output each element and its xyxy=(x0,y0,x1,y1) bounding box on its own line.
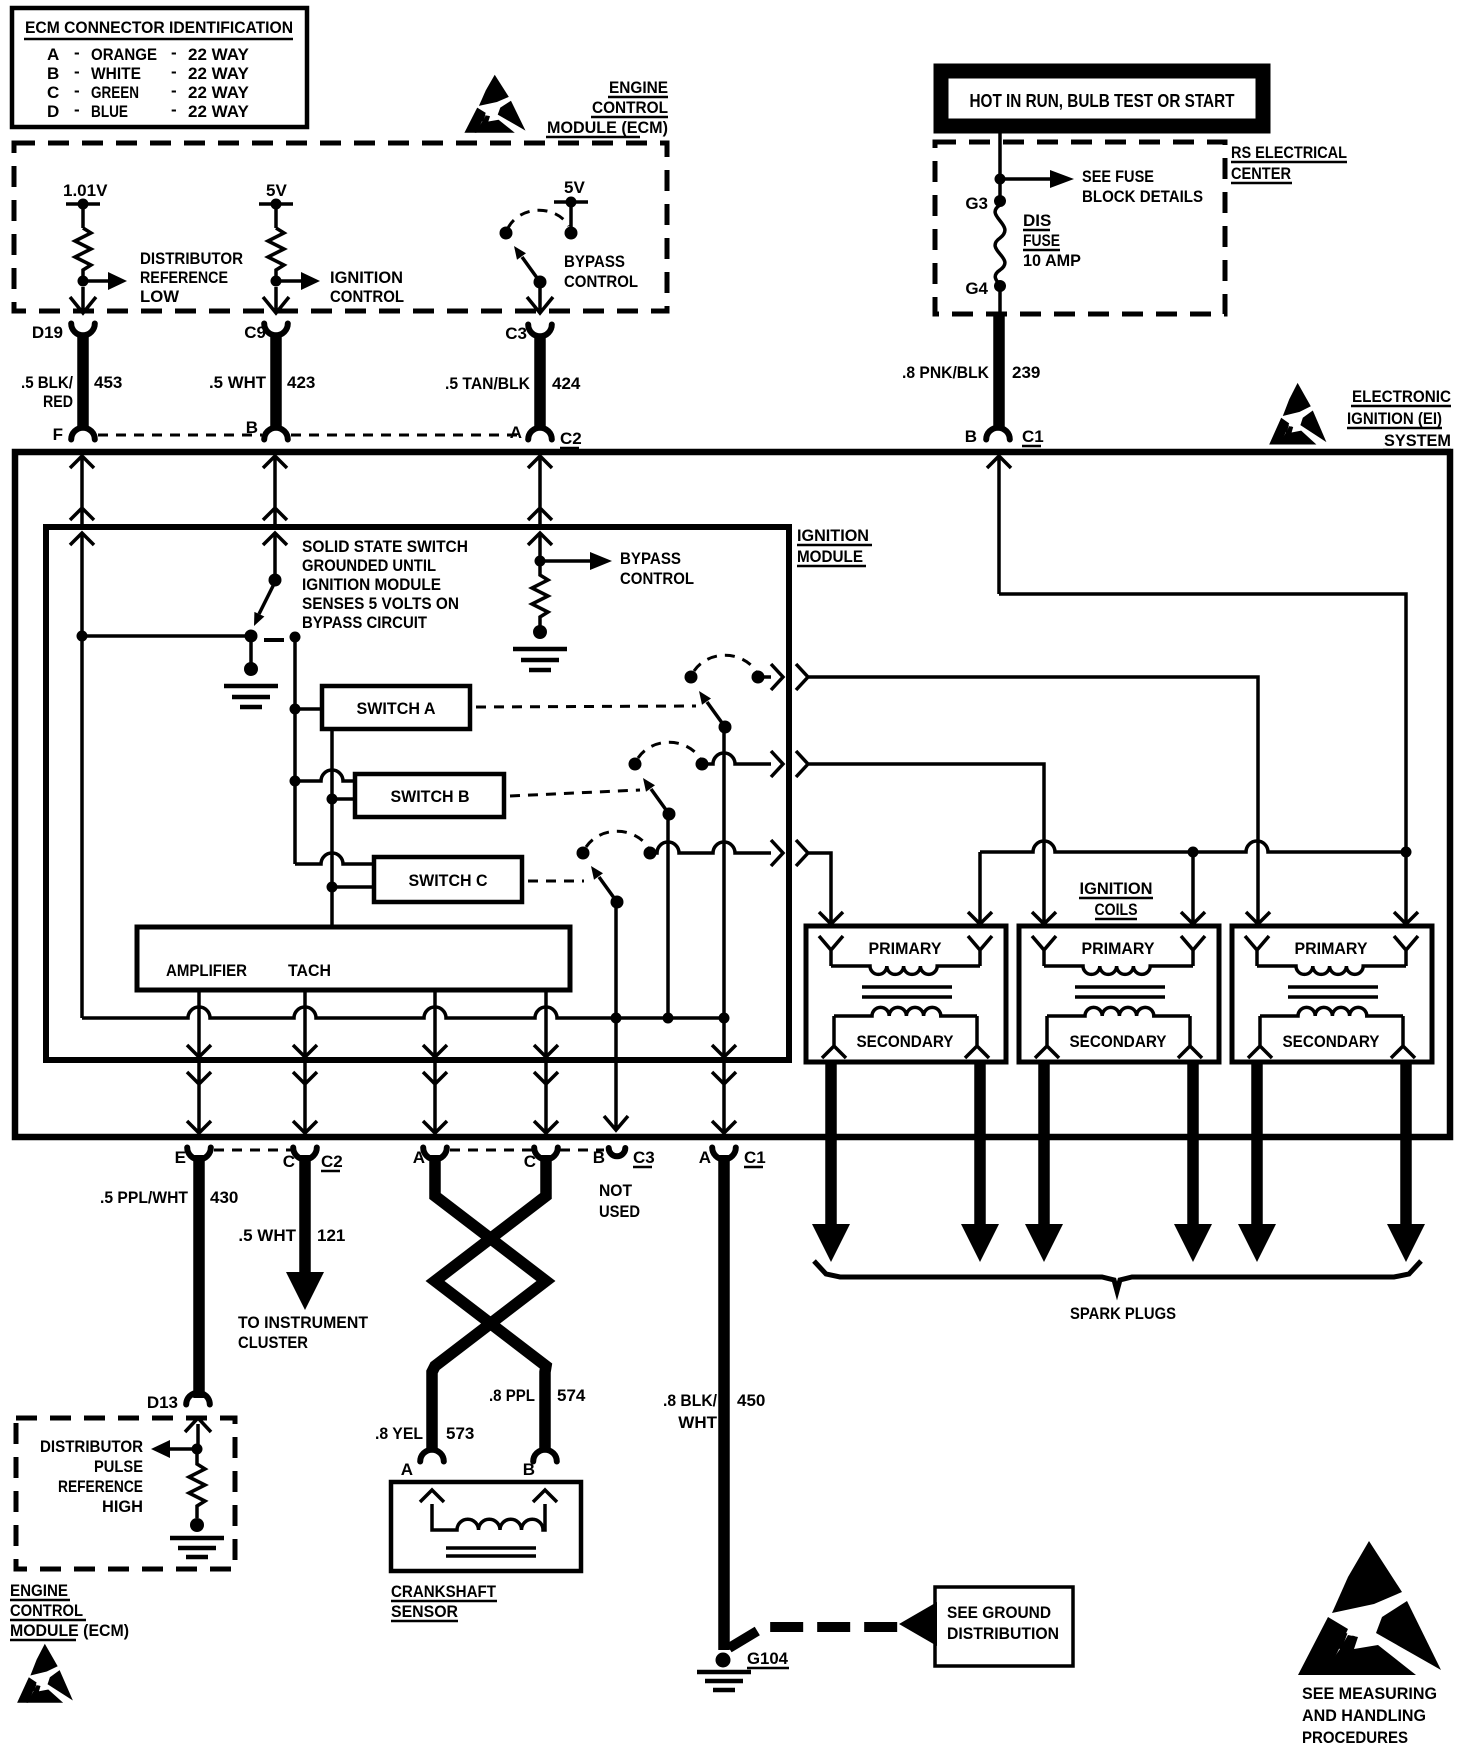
svg-text:A: A xyxy=(47,45,59,64)
spark plug wire 2 xyxy=(974,1062,986,1226)
svg-text:CRANKSHAFT: CRANKSHAFT xyxy=(391,1582,497,1601)
svg-text:-: - xyxy=(74,100,80,119)
svg-text:ECM CONNECTOR IDENTIFICATION: ECM CONNECTOR IDENTIFICATION xyxy=(25,18,293,37)
svg-text:NOT: NOT xyxy=(599,1181,633,1200)
node distributor pulse junction xyxy=(192,1444,203,1455)
svg-text:SENSOR: SENSOR xyxy=(391,1602,458,1621)
svg-text:MODULE: MODULE xyxy=(797,547,863,566)
svg-text:CONTROL: CONTROL xyxy=(592,98,668,117)
svg-text:D19: D19 xyxy=(32,323,63,342)
see ground distribution box xyxy=(935,1587,1073,1666)
svg-text:ENGINE: ENGINE xyxy=(10,1581,68,1600)
wire switch bank bus xyxy=(293,637,297,864)
wire amplifier output E with chevrons xyxy=(187,990,211,1135)
svg-text:F: F xyxy=(53,425,63,444)
wire to C1 ground return with chevrons xyxy=(712,1018,736,1135)
svg-text:D: D xyxy=(47,102,59,121)
svg-text:574: 574 xyxy=(557,1386,586,1405)
svg-text:RS ELECTRICAL: RS ELECTRICAL xyxy=(1231,143,1347,162)
svg-text:SEE FUSE: SEE FUSE xyxy=(1082,167,1154,186)
svg-text:A: A xyxy=(510,423,522,442)
ECM connector identification legend box xyxy=(12,8,307,127)
svg-text:.5 WHT: .5 WHT xyxy=(238,1226,296,1245)
wire with pin arrow into connector D19 xyxy=(70,287,96,313)
svg-text:REFERENCE: REFERENCE xyxy=(140,268,228,287)
ESD symbol bottom right (large) xyxy=(1298,1541,1441,1675)
svg-text:10 AMP: 10 AMP xyxy=(1023,251,1081,270)
sensor winding xyxy=(420,1490,557,1530)
svg-text:WHT: WHT xyxy=(678,1413,717,1432)
wire amplifier output A with chevrons xyxy=(423,990,447,1135)
svg-text:CENTER: CENTER xyxy=(1231,164,1291,183)
svg-text:AND HANDLING: AND HANDLING xyxy=(1302,1706,1426,1725)
svg-text:22 WAY: 22 WAY xyxy=(188,102,249,121)
svg-text:-: - xyxy=(74,43,80,62)
resistor bypass (module) xyxy=(532,561,548,628)
svg-text:CLUSTER: CLUSTER xyxy=(238,1333,308,1352)
ground (solid state switch) xyxy=(249,636,253,666)
node bypass control junction xyxy=(535,556,546,567)
svg-text:IGNITION MODULE: IGNITION MODULE xyxy=(302,575,441,594)
wire column to switch B xyxy=(327,794,338,805)
amplifier / tach box xyxy=(137,927,570,990)
brace spark plugs xyxy=(814,1261,1421,1291)
wire dashed to ground distribution xyxy=(729,1627,898,1648)
svg-text:IGNITION (EI): IGNITION (EI) xyxy=(1347,409,1442,428)
svg-text:E: E xyxy=(175,1148,186,1167)
wire .8 PNK/BLK 239 xyxy=(993,314,1005,427)
svg-text:HOT IN RUN, BULB TEST OR START: HOT IN RUN, BULB TEST OR START xyxy=(970,91,1235,111)
svg-text:.8 PNK/BLK: .8 PNK/BLK xyxy=(902,363,990,382)
wire dashed pin line F-B xyxy=(98,434,262,437)
wire from hot feed xyxy=(998,133,1002,201)
ignition coil 1 xyxy=(806,926,1006,1062)
svg-text:22 WAY: 22 WAY xyxy=(188,45,249,64)
switch bypass control (in ECM) xyxy=(565,227,578,240)
svg-text:1.01V: 1.01V xyxy=(63,181,108,200)
resistor ignition control xyxy=(268,228,284,281)
svg-text:423: 423 xyxy=(287,373,315,392)
svg-text:SENSES 5 VOLTS ON: SENSES 5 VOLTS ON xyxy=(302,594,459,613)
svg-text:.5 WHT: .5 WHT xyxy=(209,373,267,392)
svg-text:DIS: DIS xyxy=(1023,211,1051,230)
svg-text:ELECTRONIC: ELECTRONIC xyxy=(1352,387,1451,406)
crankshaft sensor box xyxy=(391,1482,581,1571)
wire dashed link switch B to switch 2 xyxy=(510,790,640,796)
svg-text:.5 BLK/: .5 BLK/ xyxy=(21,373,73,392)
svg-text:SWITCH C: SWITCH C xyxy=(409,871,488,890)
wire .5 PPL/WHT 430 xyxy=(193,1155,205,1398)
wire feedback trunk (hops over amplifier outputs) xyxy=(82,636,724,1018)
wire xyxy=(81,204,85,228)
node fuse block tap xyxy=(995,174,1006,185)
svg-text:B: B xyxy=(593,1148,605,1167)
svg-text:DISTRIBUTOR: DISTRIBUTOR xyxy=(40,1437,143,1456)
wire power feed trace B/C1 with chevron xyxy=(987,456,1011,594)
svg-text:-: - xyxy=(171,62,177,81)
svg-text:ORANGE: ORANGE xyxy=(91,45,157,64)
ground (bypass resistor) xyxy=(533,625,547,639)
svg-text:ENGINE: ENGINE xyxy=(609,78,668,97)
svg-text:C1: C1 xyxy=(1022,427,1044,446)
wire xyxy=(569,202,573,233)
svg-text:-: - xyxy=(171,100,177,119)
wire .5 WHT 423 xyxy=(270,334,282,429)
wire dashed pin line B-A xyxy=(291,434,524,437)
svg-text:SOLID STATE SWITCH: SOLID STATE SWITCH xyxy=(302,537,468,556)
wire bus to switch B (hop over column) xyxy=(290,776,301,787)
svg-text:239: 239 xyxy=(1012,363,1040,382)
svg-text:-: - xyxy=(74,81,80,100)
svg-text:.5 TAN/BLK: .5 TAN/BLK xyxy=(445,374,531,393)
wire dashed pin line A-C xyxy=(450,1149,532,1152)
svg-text:AMPLIFIER: AMPLIFIER xyxy=(166,961,247,980)
node junction C9 branch xyxy=(271,276,282,287)
wire .8 PPL 574 (crank B, crossed) xyxy=(435,1155,546,1452)
wire input column A (bypass) with chevrons xyxy=(528,456,552,545)
svg-text:CONTROL: CONTROL xyxy=(564,272,638,291)
wire input column B (ignition control) with chevrons xyxy=(263,456,287,545)
svg-text:450: 450 xyxy=(737,1391,765,1410)
RS electrical center dashed box xyxy=(935,142,1225,314)
switch solid state (module) xyxy=(269,574,282,587)
wire switch 3 pivot column xyxy=(614,902,618,1018)
switch 1 (to coil 3) xyxy=(685,671,698,684)
arrow ignition control xyxy=(276,279,303,283)
ECM dashed box (top) xyxy=(14,143,667,311)
svg-text:REFERENCE: REFERENCE xyxy=(58,1477,143,1496)
svg-text:IGNITION: IGNITION xyxy=(797,526,869,545)
svg-text:C2: C2 xyxy=(560,429,582,448)
wire .5 WHT 121 to instrument cluster xyxy=(299,1155,311,1274)
wire bus to switch pivot xyxy=(82,634,251,638)
svg-text:430: 430 xyxy=(210,1188,238,1207)
ESD symbol right xyxy=(1269,383,1326,445)
wire bus to switch C (hop over column) xyxy=(295,853,374,864)
wire input column F (distributor ref low) with chevrons xyxy=(70,456,94,545)
svg-text:424: 424 xyxy=(552,374,581,393)
svg-text:DISTRIBUTOR: DISTRIBUTOR xyxy=(140,249,243,268)
svg-text:BYPASS CIRCUIT: BYPASS CIRCUIT xyxy=(302,613,428,632)
svg-text:22 WAY: 22 WAY xyxy=(188,64,249,83)
svg-text:DISTRIBUTION: DISTRIBUTION xyxy=(947,1624,1059,1643)
svg-text:C3: C3 xyxy=(505,324,527,343)
svg-text:HIGH: HIGH xyxy=(102,1497,143,1516)
resistor distributor pulse xyxy=(189,1449,205,1518)
svg-text:453: 453 xyxy=(94,373,122,392)
wire with pin arrow into connector C9 xyxy=(263,287,289,313)
ECM dashed box (bottom) xyxy=(16,1418,235,1569)
wire amplifier output C2-C with chevrons xyxy=(293,990,317,1135)
svg-text:C: C xyxy=(47,83,59,102)
ignition coil 2 xyxy=(1019,926,1219,1062)
svg-text:LOW: LOW xyxy=(140,287,180,306)
svg-text:-: - xyxy=(74,62,80,81)
svg-text:G104: G104 xyxy=(747,1649,789,1668)
svg-text:573: 573 xyxy=(446,1424,474,1443)
svg-text:GREEN: GREEN xyxy=(91,83,139,102)
switch 2 (to coil 2) xyxy=(629,758,642,771)
wire .8 BLK/WHT 450 to ground xyxy=(718,1155,730,1650)
wire switch 1 output row xyxy=(758,664,1270,926)
electronic ignition system box xyxy=(15,452,1450,1137)
spark plug wire 5 xyxy=(1251,1062,1263,1226)
svg-text:COILS: COILS xyxy=(1095,900,1138,919)
switch A box xyxy=(322,686,470,729)
wire coil1 right feed xyxy=(968,852,992,926)
wire .5 BLK/RED 453 xyxy=(77,334,89,429)
svg-text:121: 121 xyxy=(317,1226,345,1245)
arrow bypass control xyxy=(540,559,592,563)
svg-text:PROCEDURES: PROCEDURES xyxy=(1302,1728,1408,1744)
node junction D19 branch xyxy=(78,276,89,287)
svg-text:MODULE (ECM): MODULE (ECM) xyxy=(547,118,668,137)
svg-text:PULSE: PULSE xyxy=(94,1457,143,1476)
switch C box xyxy=(374,857,522,902)
wire dashed pin line E-C xyxy=(214,1149,292,1152)
arrow distributor pulse reference high xyxy=(168,1447,197,1451)
svg-text:G4: G4 xyxy=(965,279,988,298)
wire switch 2 pivot column xyxy=(666,814,670,1018)
wire to C3 not used (plain arrow) xyxy=(604,1018,628,1130)
svg-text:SYSTEM: SYSTEM xyxy=(1384,431,1451,450)
spark plug wire 3 xyxy=(1038,1062,1050,1226)
wire switch A output column xyxy=(330,729,334,927)
wire dashed link switch C to switch 3 xyxy=(528,880,584,883)
svg-text:.8 BLK/: .8 BLK/ xyxy=(663,1391,717,1410)
power feed HOT IN RUN box xyxy=(941,71,1263,126)
ESD symbol bottom left xyxy=(17,1644,73,1703)
svg-text:BLUE: BLUE xyxy=(91,102,128,121)
svg-text:BYPASS: BYPASS xyxy=(564,252,625,271)
svg-text:SWITCH A: SWITCH A xyxy=(357,699,436,718)
ground G104 xyxy=(716,1653,731,1668)
svg-text:TO INSTRUMENT: TO INSTRUMENT xyxy=(238,1313,369,1332)
spark plug wire 4 xyxy=(1187,1062,1199,1226)
wire xyxy=(998,290,1002,316)
wire dashed pin line C-B xyxy=(560,1149,604,1152)
svg-text:5V: 5V xyxy=(266,181,287,200)
svg-text:SPARK PLUGS: SPARK PLUGS xyxy=(1070,1304,1176,1323)
svg-text:CONTROL: CONTROL xyxy=(620,569,694,588)
fuse DIS FUSE 10 AMP xyxy=(995,205,1005,285)
spark plug wire 6 xyxy=(1400,1062,1412,1226)
arrow see fuse block details xyxy=(1000,177,1052,181)
svg-text:IGNITION: IGNITION xyxy=(1080,879,1153,898)
svg-text:USED: USED xyxy=(599,1202,640,1221)
svg-text:-: - xyxy=(171,43,177,62)
ESD symbol top center xyxy=(464,75,525,133)
svg-text:.8 YEL: .8 YEL xyxy=(375,1424,423,1443)
svg-text:B: B xyxy=(47,64,59,83)
svg-text:RED: RED xyxy=(43,392,73,411)
wire .5 TAN/BLK 424 xyxy=(534,335,546,429)
resistor distributor reference low xyxy=(75,228,91,281)
svg-text:5V: 5V xyxy=(564,178,585,197)
svg-text:-: - xyxy=(171,81,177,100)
wire dashed link to switch bank bus xyxy=(264,638,284,642)
svg-text:A: A xyxy=(401,1460,413,1479)
wire dashed link switch A to switch 1 xyxy=(476,706,696,707)
svg-text:D13: D13 xyxy=(147,1393,178,1412)
svg-text:IGNITION: IGNITION xyxy=(330,268,403,287)
svg-text:C2: C2 xyxy=(321,1152,343,1171)
svg-text:22 WAY: 22 WAY xyxy=(188,83,249,102)
wire bus to switch A xyxy=(290,704,301,715)
ignition module box xyxy=(46,527,789,1060)
svg-text:C1: C1 xyxy=(744,1148,766,1167)
wire with pin arrow into connector C3 xyxy=(527,288,553,313)
wire amplifier output C with chevrons xyxy=(534,990,558,1135)
arrow distributor reference low xyxy=(83,279,110,283)
wire coil2 right feed xyxy=(1181,852,1205,926)
svg-text:CONTROL: CONTROL xyxy=(330,287,404,306)
ground (ECM bottom) xyxy=(190,1518,204,1532)
svg-text:B: B xyxy=(965,427,977,446)
svg-text:FUSE: FUSE xyxy=(1023,231,1060,250)
svg-text:SWITCH B: SWITCH B xyxy=(391,787,470,806)
svg-text:SEE GROUND: SEE GROUND xyxy=(947,1603,1051,1622)
switch B box xyxy=(355,774,504,817)
svg-text:CONTROL: CONTROL xyxy=(10,1601,83,1620)
svg-text:BLOCK DETAILS: BLOCK DETAILS xyxy=(1082,187,1203,206)
svg-text:SEE MEASURING: SEE MEASURING xyxy=(1302,1684,1437,1703)
svg-text:MODULE (ECM): MODULE (ECM) xyxy=(10,1621,129,1640)
wire coil feed trunk from power (hops over coil2/coil3 left feeds) xyxy=(980,841,1406,852)
wire coil3 right feed xyxy=(1394,852,1418,926)
wire column to switch C xyxy=(327,882,338,893)
wire with pin arrow into ECM xyxy=(185,1418,211,1446)
svg-text:G3: G3 xyxy=(965,194,988,213)
svg-text:WHITE: WHITE xyxy=(91,64,141,83)
wire switch 3 output row (hops over switch1/2 columns) xyxy=(650,840,843,926)
spark plug wire 1 xyxy=(825,1062,837,1226)
ignition coil 3 xyxy=(1232,926,1432,1062)
svg-text:.5 PPL/WHT: .5 PPL/WHT xyxy=(100,1188,189,1207)
wire xyxy=(274,204,278,228)
svg-text:.8 PPL: .8 PPL xyxy=(489,1386,535,1405)
svg-text:TACH: TACH xyxy=(288,961,331,980)
svg-text:GROUNDED UNTIL: GROUNDED UNTIL xyxy=(302,556,436,575)
node G4 xyxy=(994,280,1006,292)
node G3 xyxy=(994,195,1006,207)
wire .8 YEL 573 (crank A, crossed) xyxy=(432,1155,546,1452)
svg-text:C3: C3 xyxy=(633,1148,655,1167)
wire switch 1 pivot column xyxy=(722,727,726,1018)
wire switch 2 output row (hop over switch1 column) xyxy=(702,751,1056,926)
svg-text:A: A xyxy=(699,1148,711,1167)
svg-text:BYPASS: BYPASS xyxy=(620,549,681,568)
switch 3 (to coil 1) xyxy=(577,847,590,860)
